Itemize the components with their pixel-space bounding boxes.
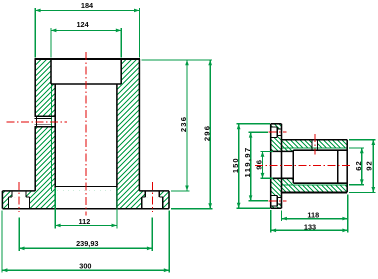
svg-text:184: 184 — [81, 1, 94, 10]
svg-text:62: 62 — [354, 160, 363, 170]
svg-text:239,93: 239,93 — [76, 239, 98, 248]
svg-text:119,97: 119,97 — [243, 147, 252, 178]
svg-text:118: 118 — [307, 211, 319, 220]
svg-text:133: 133 — [304, 222, 316, 231]
svg-text:124: 124 — [77, 20, 90, 29]
svg-text:112: 112 — [79, 217, 91, 226]
svg-text:300: 300 — [79, 262, 91, 271]
svg-text:150: 150 — [231, 157, 240, 173]
svg-text:92: 92 — [365, 160, 374, 170]
svg-text:236: 236 — [179, 116, 188, 132]
svg-text:296: 296 — [202, 125, 211, 141]
svg-text:96: 96 — [255, 159, 264, 170]
